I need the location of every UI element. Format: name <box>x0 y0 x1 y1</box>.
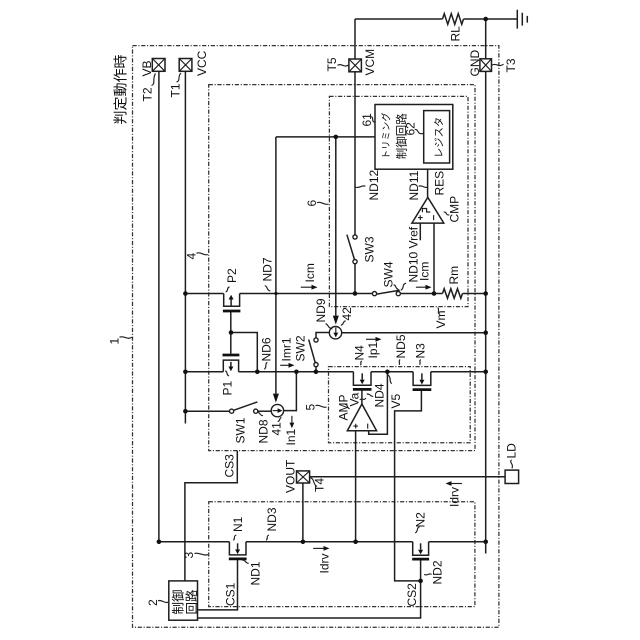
squiggle AMP <box>345 404 350 409</box>
junction gate tie on rail ND6 <box>255 370 260 375</box>
switch SW3 <box>347 235 355 260</box>
wire VOUT down to rail ND3 <box>302 483 304 542</box>
svg-text:LD: LD <box>505 443 519 459</box>
svg-text:判定動作時: 判定動作時 <box>113 55 129 125</box>
wire N3 N2 gate line <box>395 390 422 581</box>
transistor P1 <box>223 360 238 372</box>
squiggle T3 <box>492 64 504 65</box>
svg-text:Vm: Vm <box>434 310 448 328</box>
wire SW2 bottom <box>315 367 317 372</box>
junction SW3 line on rail ND10 <box>353 291 358 296</box>
switch SW2 <box>309 340 316 363</box>
squiggle ND7 <box>265 286 271 292</box>
squiggle T1 <box>177 73 182 82</box>
squiggle P1 <box>225 371 229 376</box>
squiggle 3 <box>195 553 209 555</box>
svg-text:6: 6 <box>305 200 319 207</box>
junction VOUT line on rail ND3 <box>301 540 306 545</box>
squiggle N2 <box>415 527 419 533</box>
svg-text:ND9: ND9 <box>314 298 328 322</box>
junction source 42 wire to GND line <box>483 330 488 335</box>
squiggle T4 <box>311 478 318 487</box>
junction VCC line to rail ND6 <box>183 370 188 375</box>
junction rail ND10 to GND line <box>483 291 488 296</box>
wire node ND12 horizontal to trimming box <box>276 136 375 138</box>
svg-text:41: 41 <box>270 422 284 436</box>
wire source 42 to GND line <box>342 332 486 334</box>
svg-text:VCC: VCC <box>195 50 209 76</box>
wire AMP plus input sense <box>355 431 357 542</box>
svg-text:ND7: ND7 <box>261 257 275 281</box>
squiggle 6 <box>317 202 329 204</box>
squiggle ND10 <box>401 283 406 290</box>
current arrow Ip1 <box>366 338 376 340</box>
squiggle ND1 <box>242 560 249 563</box>
terminal T3 box <box>480 59 492 72</box>
svg-text:CS3: CS3 <box>223 454 237 478</box>
resistor Rm <box>443 289 463 299</box>
wire VB line <box>158 71 160 542</box>
terminal T4 box <box>297 471 310 483</box>
current arrow In1 <box>291 416 293 423</box>
svg-text:RES: RES <box>433 171 447 196</box>
transistor N3 <box>413 372 431 386</box>
squiggle SW4 <box>394 285 399 290</box>
squiggle ND2 <box>424 574 432 575</box>
svg-text:トリミング: トリミング <box>381 112 392 159</box>
svg-text:T3: T3 <box>504 58 518 72</box>
current arrow Icm right <box>416 286 426 288</box>
laser diode LD box <box>505 470 518 483</box>
svg-text:P2: P2 <box>225 268 239 283</box>
squiggle LD <box>511 460 513 469</box>
svg-text:レジスタ: レジスタ <box>434 117 446 158</box>
wire VOUT to LD <box>310 476 506 478</box>
block 5 dashed box (AMP) <box>329 367 471 443</box>
svg-text:SW4: SW4 <box>382 261 396 287</box>
svg-text:42: 42 <box>340 307 354 321</box>
terminal T2 box <box>152 59 165 72</box>
wire CMP minus input <box>433 223 435 293</box>
svg-text:T1: T1 <box>169 83 183 97</box>
squiggle P2 <box>226 287 230 292</box>
junction node ND7 on rail <box>274 292 277 295</box>
svg-text:ND4: ND4 <box>373 383 387 407</box>
squiggle 62 <box>415 129 424 133</box>
wire CS2 <box>198 581 421 618</box>
squiggle N1 <box>233 535 236 540</box>
svg-text:Idrv: Idrv <box>318 553 332 573</box>
squiggle T2 <box>152 74 156 86</box>
transistor N4 <box>353 372 371 385</box>
svg-text:CS2: CS2 <box>405 583 419 607</box>
svg-text:CS1: CS1 <box>224 582 238 606</box>
junction rail ND5 to GND line <box>483 370 488 375</box>
junction AMP plus line on rail ND3 <box>353 540 358 545</box>
current arrow Imr1 <box>280 364 288 366</box>
squiggle 42 <box>341 321 346 326</box>
squiggle 41 <box>278 417 282 421</box>
current arrow Icm left <box>301 286 312 288</box>
svg-text:P1: P1 <box>221 380 235 395</box>
junction P1 P2 gate tie <box>229 330 234 335</box>
svg-text:3: 3 <box>182 552 196 559</box>
squiggle ND9 <box>326 324 333 329</box>
junction top rail / RL / ground <box>483 17 488 22</box>
trimming control circuit box 61 <box>375 105 453 170</box>
junction VCC line to P2 rail <box>183 291 188 296</box>
svg-text:In1: In1 <box>284 428 298 445</box>
svg-text:Imr1: Imr1 <box>280 337 294 361</box>
svg-text:RL: RL <box>449 26 463 42</box>
squiggle V5 <box>388 375 392 384</box>
svg-text:N2: N2 <box>414 512 428 528</box>
squiggle CMP <box>444 212 450 215</box>
block 3 dashed box (driver) <box>209 502 475 607</box>
squiggle T5 <box>338 65 349 66</box>
squiggle ND5 <box>399 360 400 365</box>
svg-text:SW1: SW1 <box>234 417 248 443</box>
terminal T5 box <box>349 59 362 72</box>
wire SW3 bottom <box>354 264 356 294</box>
squiggle ND3 <box>266 535 269 540</box>
op-amp AMP triangle <box>347 404 376 431</box>
wire RES line <box>427 169 429 197</box>
squiggle ND6 <box>264 362 267 369</box>
svg-text:ND1: ND1 <box>249 561 263 585</box>
svg-text:N3: N3 <box>414 343 428 359</box>
wire branch to current source 42 <box>335 137 337 316</box>
squiggle 4 <box>197 253 209 255</box>
svg-text:回路: 回路 <box>184 589 199 615</box>
squiggle ND11 <box>419 186 428 188</box>
svg-text:5: 5 <box>304 404 318 411</box>
wire rail ND3 (output stage) <box>159 541 486 543</box>
current source 41 <box>271 404 283 416</box>
current arrow Idrv (bottom, pointing right) <box>313 547 323 549</box>
junction node ND12 wire to source 42 <box>334 135 339 140</box>
svg-text:Icm: Icm <box>303 263 317 282</box>
junction VB line to rail ND3 <box>157 540 162 545</box>
wire source 41 to rail <box>284 372 297 411</box>
svg-text:VCM: VCM <box>363 49 377 76</box>
svg-text:Va: Va <box>348 392 362 406</box>
switch SW4 <box>377 290 400 294</box>
squiggle 2 <box>158 600 168 602</box>
svg-text:VB: VB <box>140 60 154 76</box>
wire rail ND5/ND6 (P1 drain) <box>185 371 485 373</box>
svg-text:T5: T5 <box>325 57 339 71</box>
wire AMP feedback V5 <box>369 372 388 435</box>
svg-text:SW2: SW2 <box>294 335 308 361</box>
ground symbol <box>517 10 527 29</box>
wire Vref stub <box>419 223 421 240</box>
transistor N2 <box>413 542 429 555</box>
svg-text:4: 4 <box>185 253 199 260</box>
wire SW2 top to source 42 <box>316 333 330 338</box>
wire P1 P2 gate tie <box>231 312 257 372</box>
wire SW1 left to VCC <box>185 410 229 412</box>
transistor P2 <box>224 294 240 307</box>
junction source 41 wire on rail <box>294 370 299 375</box>
junction CMP minus on rail ND10 <box>432 291 437 296</box>
junction VCC line to SW1 wire <box>183 409 188 414</box>
control circuit box 2 <box>169 581 198 620</box>
wire SW1 right to source 41 <box>258 410 271 412</box>
squiggle N4 <box>360 361 362 365</box>
wire rail ND10 (P2 drain to Rm) <box>185 293 485 295</box>
svg-text:ND8: ND8 <box>257 419 271 443</box>
squiggle ND4 <box>367 394 374 396</box>
current source 42 <box>329 327 341 339</box>
svg-text:Icm: Icm <box>418 262 432 281</box>
chip boundary box 1 (dash-dot) <box>133 46 499 628</box>
svg-text:ND12: ND12 <box>367 169 381 200</box>
squiggle 5 <box>316 405 327 407</box>
wire CS3 <box>185 451 237 581</box>
wire AMP output to N4 gate <box>361 390 363 404</box>
svg-text:N1: N1 <box>231 516 245 532</box>
wire VCC line <box>184 71 186 423</box>
resistor RL <box>443 14 464 25</box>
svg-text:V5: V5 <box>389 393 403 408</box>
squiggle N3 <box>420 360 421 365</box>
wire top rail VCM to ground <box>355 18 517 20</box>
junction SW2 on rail <box>314 370 319 375</box>
transistor N1 <box>229 542 246 555</box>
junction rail ND3 to GND line <box>483 540 488 545</box>
switch SW1 <box>234 402 258 410</box>
svg-text:T2: T2 <box>141 87 155 101</box>
wire VCM riser <box>354 19 356 235</box>
current arrow Idrv (LD, pointing left) <box>452 483 462 485</box>
svg-text:N4: N4 <box>353 345 367 361</box>
squiggle Va <box>360 398 366 400</box>
svg-text:GND: GND <box>468 50 482 77</box>
svg-text:Rm: Rm <box>447 266 461 285</box>
svg-text:VOUT: VOUT <box>284 459 298 493</box>
op-amp CMP triangle <box>412 197 444 223</box>
junction node V5 on rail ND5 <box>385 370 390 375</box>
wire node ND7 vertical <box>275 137 277 394</box>
register box 62 <box>424 111 450 163</box>
squiggle ND12 <box>355 186 365 188</box>
svg-text:ND2: ND2 <box>431 560 445 584</box>
svg-text:1: 1 <box>108 338 122 345</box>
block 6 dashed box <box>329 96 468 306</box>
wire CS1 (N1 gate to control box) <box>198 560 238 610</box>
svg-text:61: 61 <box>360 113 374 127</box>
svg-text:Idrv: Idrv <box>448 487 462 507</box>
squiggle 61 <box>371 117 375 123</box>
svg-text:ND6: ND6 <box>260 337 274 361</box>
squiggle 1 <box>120 337 133 339</box>
block 4 dashed box <box>209 85 475 451</box>
svg-text:2: 2 <box>146 599 160 606</box>
wire GND/T3 vertical line <box>485 19 487 554</box>
svg-text:Ip1: Ip1 <box>366 341 380 358</box>
svg-text:CMP: CMP <box>448 196 462 223</box>
junction N2 N3 gate tie <box>418 579 423 584</box>
svg-text:制御: 制御 <box>171 589 186 614</box>
squiggle ND8 <box>258 412 264 415</box>
svg-text:ND5: ND5 <box>394 334 408 358</box>
terminal T1 box <box>179 59 192 72</box>
svg-text:SW3: SW3 <box>363 236 377 262</box>
svg-text:ND11: ND11 <box>407 170 421 200</box>
squiggle Vm <box>438 308 440 315</box>
svg-text:制御回路: 制御回路 <box>395 113 409 159</box>
svg-text:ND3: ND3 <box>265 507 279 531</box>
